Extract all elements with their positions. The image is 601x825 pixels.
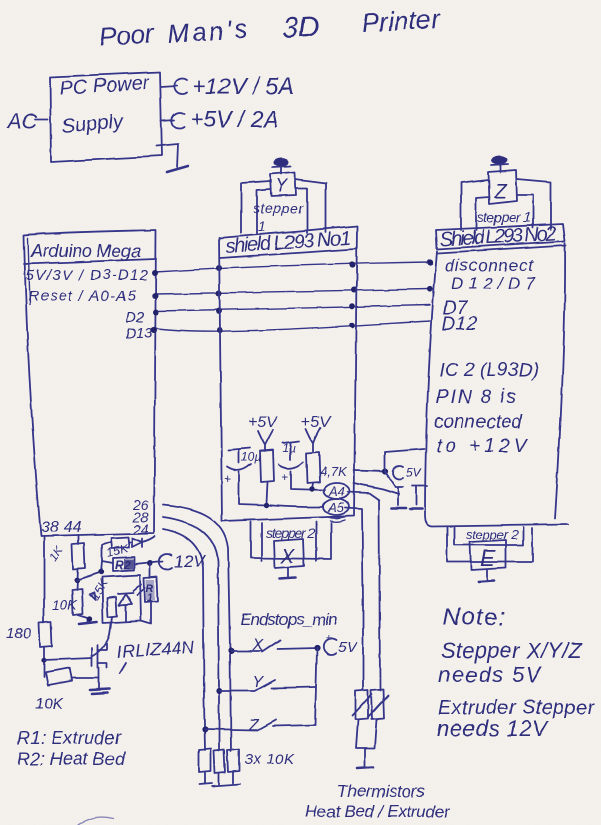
svg-text:3x 10K: 3x 10K: [244, 751, 295, 768]
svg-text:E: E: [480, 545, 496, 571]
svg-text:stepper 1: stepper 1: [477, 209, 531, 225]
svg-text:1: 1: [147, 592, 153, 604]
svg-text:Endstops_min: Endstops_min: [240, 610, 338, 629]
svg-text:X: X: [280, 546, 295, 568]
svg-text:Printer: Printer: [361, 4, 442, 38]
svg-text:+5V: +5V: [248, 414, 278, 431]
svg-text:Z: Z: [493, 180, 508, 203]
svg-text:38 44: 38 44: [41, 519, 81, 536]
svg-text:10K: 10K: [52, 597, 78, 613]
svg-text:AC: AC: [6, 110, 38, 133]
svg-text:5V: 5V: [406, 466, 422, 480]
svg-text:+5V / 2A: +5V / 2A: [190, 106, 279, 132]
svg-text:D2: D2: [125, 309, 145, 326]
svg-text:Arduino Mega: Arduino Mega: [30, 241, 141, 261]
svg-text:needs 5V: needs 5V: [438, 662, 542, 687]
svg-text:5V: 5V: [338, 639, 358, 656]
svg-text:R2: Heat Bed: R2: Heat Bed: [17, 749, 126, 769]
svg-text:1µ: 1µ: [282, 441, 296, 455]
svg-text:Reset / A0-A5: Reset / A0-A5: [28, 288, 137, 305]
svg-text:stepper 2: stepper 2: [266, 525, 315, 541]
svg-text:IC 2 (L93D): IC 2 (L93D): [439, 360, 539, 381]
svg-text:12V: 12V: [174, 552, 206, 571]
svg-text:D12: D12: [442, 314, 477, 335]
svg-text:A4: A4: [328, 484, 345, 499]
svg-text:Thermistors: Thermistors: [337, 782, 426, 801]
svg-text:Z: Z: [248, 717, 260, 734]
svg-text:+: +: [281, 470, 288, 484]
svg-text:PIN 8 is: PIN 8 is: [436, 387, 517, 408]
svg-text:disconnect: disconnect: [445, 256, 534, 275]
svg-text:5V/3V / D3-D12: 5V/3V / D3-D12: [26, 267, 149, 284]
svg-text:R1: Extruder: R1: Extruder: [17, 728, 122, 748]
svg-text:D13: D13: [125, 325, 153, 342]
svg-text:3D: 3D: [282, 11, 321, 45]
svg-text:stepper 2: stepper 2: [466, 527, 519, 542]
svg-text:R2: R2: [115, 558, 131, 572]
svg-text:stepper: stepper: [253, 200, 304, 216]
svg-text:connected: connected: [434, 412, 523, 433]
svg-text:4,7K: 4,7K: [320, 464, 348, 479]
svg-text:180: 180: [6, 625, 32, 642]
svg-text:1: 1: [258, 218, 266, 234]
svg-text:Poor: Poor: [98, 18, 155, 52]
svg-text:Note:: Note:: [443, 604, 505, 631]
svg-text:Heat Bed / Extruder: Heat Bed / Extruder: [305, 802, 451, 821]
svg-text:A5: A5: [327, 500, 345, 515]
svg-text:Stepper X/Y/Z: Stepper X/Y/Z: [441, 638, 584, 663]
svg-text:Y: Y: [275, 176, 289, 196]
svg-text:10K: 10K: [35, 696, 65, 713]
svg-text:10µ: 10µ: [241, 450, 261, 464]
svg-text:+12V / 5A: +12V / 5A: [192, 73, 294, 99]
svg-text:24: 24: [132, 521, 149, 537]
svg-text:needs 12V: needs 12V: [437, 716, 549, 741]
svg-text:+: +: [224, 472, 231, 486]
